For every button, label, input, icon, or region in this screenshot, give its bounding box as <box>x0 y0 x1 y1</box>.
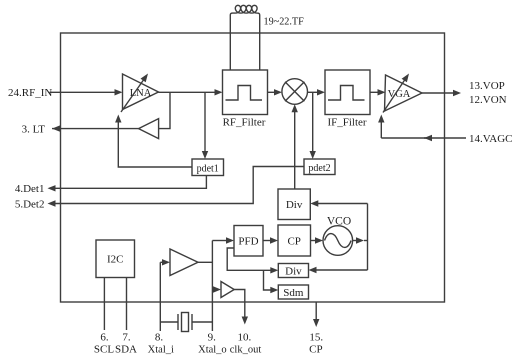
svg-text:3. LT: 3. LT <box>22 123 46 135</box>
svg-text:13.VOP: 13.VOP <box>469 80 505 92</box>
svg-text:CP: CP <box>287 236 300 248</box>
op-amp LNA U1 <box>123 74 159 110</box>
svg-text:I2C: I2C <box>107 253 124 265</box>
svg-text:PFD: PFD <box>238 236 258 248</box>
wire ref to PFD <box>212 240 227 242</box>
op-amp VGA U2 <box>385 75 423 111</box>
wire pdet1 to Det1 <box>54 176 206 189</box>
svg-text:12.VON: 12.VON <box>469 94 507 106</box>
svg-text:7.: 7. <box>122 331 131 343</box>
divider Div1 <box>278 189 310 220</box>
wire Xtal_o <box>211 241 213 332</box>
wire PFD to Div2 <box>227 248 271 270</box>
wire B1 to LT <box>52 128 139 130</box>
svg-text:Div: Div <box>285 266 302 278</box>
buffer amp B2 <box>170 249 198 276</box>
wire CP pin stub <box>315 302 317 321</box>
wire SCL <box>103 278 105 331</box>
crystal X1 <box>160 321 178 323</box>
svg-text:pdet1: pdet1 <box>197 163 219 174</box>
PFD block <box>234 226 263 257</box>
IF filter block <box>325 70 370 115</box>
wire mixer to IF filter <box>308 91 319 93</box>
I2C block <box>96 240 135 278</box>
svg-text:6.: 6. <box>100 331 109 343</box>
chip boundary <box>61 33 445 302</box>
svg-text:VGA: VGA <box>388 89 411 100</box>
svg-text:LNA: LNA <box>130 88 152 99</box>
wire VGA output <box>422 92 454 94</box>
wire clk_out <box>234 290 245 319</box>
wire SDA <box>126 278 128 331</box>
svg-text:SDA: SDA <box>115 343 137 355</box>
svg-text:Xtal_i: Xtal_i <box>148 344 174 355</box>
wire RF filter to mixer <box>268 91 276 93</box>
svg-text:10.: 10. <box>238 331 252 343</box>
svg-text:19~22.TF: 19~22.TF <box>264 16 305 27</box>
svg-text:VCO: VCO <box>327 216 351 228</box>
svg-text:SCL: SCL <box>94 343 114 355</box>
wire CP to VCO <box>311 240 317 242</box>
svg-text:14.VAGC: 14.VAGC <box>469 133 512 145</box>
svg-text:clk_out: clk_out <box>230 344 262 355</box>
RF filter block <box>223 70 268 115</box>
wire LNA out to B1 <box>159 92 170 128</box>
svg-text:8.: 8. <box>155 331 164 343</box>
wire junction to Sdm <box>264 270 272 290</box>
inductor L (external tank) <box>230 5 259 70</box>
wire RF_IN <box>50 91 116 93</box>
wire Xtal_i <box>159 262 161 331</box>
sigma-delta Sdm <box>278 285 308 299</box>
svg-text:15.: 15. <box>309 331 323 343</box>
svg-text:Sdm: Sdm <box>283 287 304 299</box>
wire LNA out to RF filter <box>159 91 216 93</box>
svg-text:24.RF_IN: 24.RF_IN <box>8 87 52 99</box>
svg-text:4.Det1: 4.Det1 <box>15 183 45 195</box>
svg-text:CP: CP <box>309 343 322 355</box>
wire pdet2 to Det2 <box>54 167 304 204</box>
wire Xtal_i to buffer <box>160 261 163 263</box>
divider Div2 <box>278 264 308 278</box>
svg-text:Div: Div <box>286 199 303 211</box>
wire mixer out to pdet2 <box>312 92 314 152</box>
wire VAGC <box>424 137 466 139</box>
wire bus to Div2 <box>315 269 368 271</box>
power detector pdet1 <box>192 159 224 176</box>
wire LNA out to pdet1 <box>204 92 206 152</box>
svg-text:Xtal_o: Xtal_o <box>198 344 227 355</box>
wire VCO to feedback bus <box>356 237 364 243</box>
wire to clk buffer <box>212 289 214 291</box>
VCO oscillator <box>323 226 353 256</box>
svg-text:pdet2: pdet2 <box>308 163 330 174</box>
power detector pdet2 <box>304 159 335 175</box>
CP block <box>278 225 311 256</box>
svg-text:9.: 9. <box>208 331 217 343</box>
buffer amp B3 <box>221 282 234 298</box>
svg-text:5.Det2: 5.Det2 <box>15 198 45 210</box>
wire pdet1 to LNA gain <box>118 121 192 167</box>
wire feedback bus <box>367 204 369 271</box>
wire IF filter to VGA <box>370 91 379 93</box>
wire bus to Div1 <box>317 203 368 205</box>
wire buffer B2 out <box>198 261 212 263</box>
svg-text:IF_Filter: IF_Filter <box>327 116 366 128</box>
mixer M1 <box>282 79 308 105</box>
wire Div1 to mixer LO <box>294 111 296 189</box>
wire PFD to CP <box>263 240 272 242</box>
svg-text:RF_Filter: RF_Filter <box>223 116 266 128</box>
buffer amp B1 <box>139 119 159 139</box>
